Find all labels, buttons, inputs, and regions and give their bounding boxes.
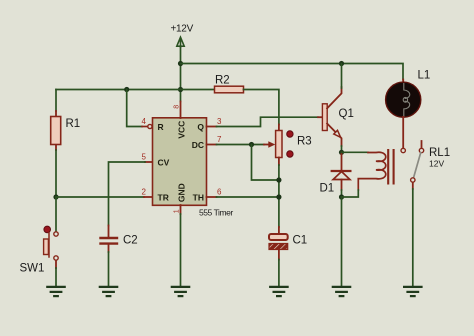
wire vcc rail left (56, 89, 215, 91)
svg-text:1: 1 (174, 209, 181, 213)
diode D1 cathode lead (341, 152, 343, 170)
wire vcc vertical (180, 47, 182, 102)
wire SW1 to ground (55, 268, 57, 286)
wire collector up (341, 64, 343, 89)
wire pot to C1 (278, 165, 280, 227)
pin 7 stub (207, 144, 217, 146)
transistor Q1 emitter arrow (334, 130, 341, 137)
svg-text:555 Timer: 555 Timer (199, 208, 233, 218)
pot R3 bottom stub (278, 158, 280, 166)
switch SW1 stem (48, 233, 50, 258)
relay contact blade (414, 153, 421, 178)
capacitor C2 stub top (108, 226, 110, 237)
capacitor C2 (101, 238, 118, 244)
transistor Q1 emitter (327, 124, 341, 147)
relay RL1 coil (358, 152, 385, 190)
wire relay to ground (412, 189, 414, 286)
svg-text:SW1: SW1 (20, 263, 45, 275)
wire C1 to ground (278, 260, 280, 286)
svg-text:4: 4 (142, 117, 147, 126)
svg-text:2: 2 (142, 188, 147, 197)
capacitor C1 top plate (269, 234, 288, 240)
svg-text:GND: GND (176, 183, 186, 202)
svg-text:3: 3 (217, 117, 222, 126)
ground D1 (333, 287, 350, 296)
switch SW1 contact top (54, 232, 58, 236)
svg-text:7: 7 (217, 135, 222, 144)
node top rail (178, 61, 183, 66)
node TH (276, 194, 281, 199)
capacitor C1 stub top (278, 227, 280, 234)
svg-text:R3: R3 (297, 136, 312, 148)
wire coil bottom lead (342, 190, 359, 197)
relay contact terminal left (401, 148, 405, 152)
diode D1 (332, 170, 351, 172)
wire Q output to base (217, 117, 319, 126)
svg-text:VCC: VCC (176, 121, 186, 139)
wire DC branch down (252, 145, 279, 181)
lamp L1 filament (404, 84, 410, 117)
capacitor C2 stub bottom (108, 245, 110, 252)
pin 5 stub (145, 161, 153, 163)
svg-text:TR: TR (158, 192, 169, 202)
svg-text:Q1: Q1 (339, 108, 354, 120)
ground C1 (270, 287, 287, 296)
resistor R2 (215, 86, 244, 93)
wire R1 bottom to junction (55, 150, 57, 197)
capacitor C1 bottom plate (269, 244, 288, 250)
node DC branch (249, 142, 254, 147)
diode D1 anode lead (341, 180, 343, 191)
resistor R1 stubs (55, 111, 57, 150)
svg-text:+12V: +12V (171, 24, 194, 35)
wire C2 to ground (108, 252, 110, 286)
node TR junction (53, 194, 58, 199)
wire R2 to pot top (244, 90, 279, 125)
svg-text:R: R (158, 122, 164, 132)
transistor Q1 base stub (318, 116, 323, 118)
wire pin1 to ground (180, 214, 182, 286)
svg-text:5: 5 (142, 153, 147, 162)
lamp L1 (386, 82, 421, 117)
wire emitter down (341, 146, 343, 152)
wire CV to C2 (109, 162, 146, 226)
wire TR row (56, 196, 144, 198)
svg-text:C2: C2 (123, 235, 138, 247)
switch SW1 bottom stub (55, 261, 57, 269)
transistor Q1 (322, 104, 327, 131)
node pot bottom (276, 177, 281, 182)
switch SW1 button cap (44, 226, 51, 233)
svg-text:R2: R2 (215, 75, 230, 87)
wire D1 junction to ground (341, 197, 343, 286)
ground relay (404, 287, 421, 296)
svg-text:Q: Q (197, 122, 204, 132)
relay contact terminal bottom (411, 178, 415, 182)
wire R1 top (55, 90, 57, 112)
transistor Q1 collector (327, 87, 341, 108)
power symbol arrow (177, 37, 184, 47)
svg-text:DC: DC (192, 140, 204, 150)
wire pin4 branch (127, 90, 142, 127)
svg-text:CV: CV (158, 157, 170, 167)
op-amp style IC body U1 555 (153, 118, 207, 206)
pot R3 dot top (287, 131, 293, 137)
pin 1 stub (180, 205, 182, 214)
pin 8 stub (180, 102, 182, 119)
pin 2 stub (144, 196, 153, 198)
wire coil top lead (342, 151, 369, 153)
potentiometer R3 (276, 131, 282, 158)
pot wiper arrow (264, 144, 270, 146)
node emitter junction (339, 150, 344, 155)
relay contact terminal right stub (421, 141, 423, 148)
wire TH row (217, 196, 279, 198)
resistor R1 (51, 117, 61, 145)
relay RL1 core (388, 150, 393, 183)
wire top rail to lamp (181, 64, 404, 80)
lamp L1 filament knot (403, 97, 407, 102)
svg-text:L1: L1 (418, 70, 431, 82)
node r1 branch (124, 87, 129, 92)
pot R3 dot bottom (287, 151, 293, 157)
pin 6 stub (207, 196, 217, 198)
ground SW1 (47, 287, 64, 296)
relay contact terminal right (419, 148, 423, 152)
ground 555 (172, 287, 189, 296)
node D1 bottom (339, 194, 344, 199)
capacitor C1 stub bottom (278, 250, 280, 260)
ground C2 (100, 287, 117, 296)
svg-text:6: 6 (217, 188, 222, 197)
pin 3 stub (207, 126, 217, 128)
switch SW1 actuator (44, 239, 49, 255)
svg-text:RL1: RL1 (429, 147, 450, 159)
lamp L1 top stub (402, 80, 404, 85)
wire DC to pot (217, 144, 265, 146)
svg-text:12V: 12V (429, 159, 444, 169)
svg-text:D1: D1 (320, 183, 335, 195)
node collector junction (339, 61, 344, 66)
wire D1 to junction (341, 190, 343, 197)
svg-text:8: 8 (174, 105, 181, 109)
svg-text:C1: C1 (293, 235, 308, 247)
pin 4 bubble (148, 124, 152, 128)
node vcc rail (178, 87, 183, 92)
relay bottom stub (412, 182, 414, 189)
switch SW1 contact bottom (54, 256, 58, 260)
wire SW1 top (55, 197, 57, 232)
svg-text:TH: TH (193, 192, 204, 202)
pot R3 top stub (278, 125, 280, 131)
lamp L1 bottom lead (402, 117, 404, 148)
svg-text:R1: R1 (66, 118, 81, 130)
